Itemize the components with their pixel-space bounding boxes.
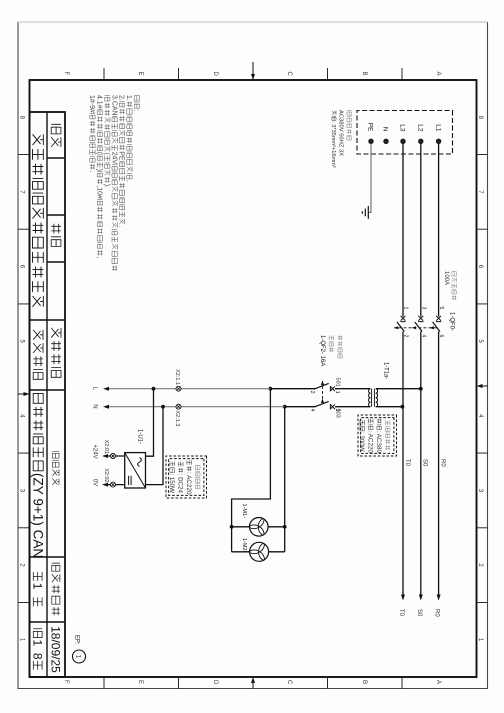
svg-text:L3: L3 (399, 124, 406, 132)
wire N to power supply input (146, 407, 164, 485)
label QF0 description (452, 272, 456, 276)
svg-text:N: N (92, 404, 98, 408)
svg-text:5: 5 (19, 340, 25, 344)
svg-text:6: 6 (477, 265, 483, 269)
wire 0V output (107, 484, 125, 486)
junction L to power supply (152, 387, 156, 391)
svg-text:1: 1 (334, 391, 340, 394)
svg-text:501: 501 (335, 378, 341, 387)
wire L1 from terminal to breaker (438, 144, 440, 317)
svg-text:1-QF2- 16A: 1-QF2- 16A (319, 335, 325, 366)
junction N to power supply (161, 405, 165, 409)
wire N rail breaker to fan tap (285, 406, 315, 408)
svg-text:R0: R0 (440, 459, 446, 467)
junction fan1 top (283, 525, 287, 529)
wire +24V output (107, 455, 125, 457)
svg-text:1: 1 (477, 638, 483, 642)
svg-text:4: 4 (309, 409, 315, 412)
wire fan1 bottom lead (232, 526, 250, 528)
svg-text:2: 2 (19, 563, 25, 567)
svg-text:: 3*35mm²+16mm²: : 3*35mm²+16mm² (330, 121, 336, 168)
terminal X2:01 (111, 454, 116, 459)
svg-text:1-QF0-: 1-QF0- (449, 312, 455, 331)
svg-text:1: 1 (75, 655, 81, 659)
wire L3 from terminal to breaker (402, 144, 404, 317)
svg-text:24V: 24V (110, 152, 117, 165)
wire R0 from breaker to feeder arrow (438, 332, 440, 596)
arrow N out (103, 405, 109, 409)
breaker QF0 pole L2 contact (418, 316, 423, 321)
svg-text:0V: 0V (92, 479, 98, 486)
svg-text:4: 4 (19, 414, 25, 418)
breaker QF0 pole L1 contact (436, 316, 441, 321)
wire L2 from terminal to breaker (420, 144, 422, 317)
svg-text:6: 6 (19, 265, 25, 269)
svg-text:: 150W: : 150W (168, 473, 175, 493)
svg-text:L1: L1 (434, 124, 441, 132)
svg-text:L: L (92, 387, 98, 391)
svg-text:1: 1 (31, 583, 45, 590)
fan M2 (250, 542, 269, 561)
fan M1 (250, 518, 269, 537)
svg-text:X2:02: X2:02 (103, 468, 109, 482)
svg-text:5: 5 (438, 307, 444, 310)
svg-text:4: 4 (420, 335, 426, 338)
svg-text:1-U1-: 1-U1- (137, 429, 143, 444)
wire 503 tap from T0 to transformer (376, 406, 403, 408)
svg-text:D: D (212, 72, 218, 77)
svg-text:18: 18 (31, 640, 45, 660)
junction on S0 (419, 387, 423, 391)
wire fan1 top lead (268, 526, 285, 528)
svg-text:4.1#: 4.1# (96, 95, 103, 109)
svg-text:A: A (435, 680, 441, 684)
transformer T1a (376, 389, 378, 407)
wire 501 transformer to breaker QF2 (335, 388, 370, 390)
svg-text:: AC220: : AC220 (185, 472, 192, 495)
svg-text:: AC220: : AC220 (367, 431, 374, 454)
svg-text:D: D (212, 680, 218, 685)
svg-text:1#-9#: 1#-9# (88, 95, 95, 113)
svg-text:2: 2 (477, 563, 483, 567)
svg-text:B: B (361, 72, 367, 76)
incoming supply terminal box (357, 111, 453, 155)
svg-text:6: 6 (438, 335, 444, 338)
svg-text:.: . (118, 225, 125, 227)
svg-text:3: 3 (420, 307, 426, 310)
svg-text:7: 7 (477, 190, 483, 194)
label QF2 description (338, 336, 342, 340)
power supply spec box (166, 456, 207, 498)
svg-text:).: ). (103, 184, 110, 188)
ground (362, 206, 368, 219)
arrow L out (103, 387, 109, 391)
wire S0 from breaker to feeder arrow (420, 332, 422, 596)
svg-text:A: A (435, 72, 441, 76)
wire L branch to fans (232, 389, 271, 552)
breaker QF2 linkage (322, 381, 324, 401)
wire 503 transformer to breaker QF2 (335, 406, 370, 408)
svg-text:F: F (63, 72, 69, 76)
svg-text:1-T1a-: 1-T1a- (383, 362, 389, 379)
svg-text:1.: 1. (125, 95, 132, 101)
svg-text:+24V: +24V (92, 444, 98, 458)
svg-text:C: C (286, 72, 292, 77)
svg-text:PE: PE (367, 123, 374, 132)
wire T0 from breaker to feeder arrow (402, 332, 404, 596)
transformer spec box (358, 415, 397, 456)
svg-text:8: 8 (477, 116, 483, 120)
svg-text:4: 4 (477, 414, 483, 418)
svg-text:: AC380: : AC380 (375, 431, 382, 454)
wire N rail grey lower (108, 406, 285, 408)
svg-text:): ) (96, 169, 103, 171)
wire fan2 bottom lead (232, 551, 250, 553)
svg-text:8: 8 (19, 116, 25, 120)
junction L fan tap (269, 387, 273, 391)
svg-text:3: 3 (477, 489, 483, 493)
svg-text:E: E (137, 680, 143, 684)
junction N fan tap (283, 405, 287, 409)
svg-text:18/09/25: 18/09/25 (49, 626, 63, 673)
svg-text:1: 1 (19, 638, 25, 642)
wire L to power supply input (146, 389, 154, 457)
svg-text:2.: 2. (118, 95, 125, 101)
terminal L2 (419, 139, 424, 144)
svg-text:.: . (88, 171, 95, 173)
svg-text:X2:1.3: X2:1.3 (174, 411, 180, 427)
svg-text:1-M1-: 1-M1- (241, 504, 247, 519)
svg-text:1-M2-: 1-M2- (241, 538, 247, 553)
supply description text (347, 111, 352, 116)
transformer core (373, 389, 375, 407)
svg-text:T0: T0 (398, 609, 404, 617)
svg-text:3.CAN: 3.CAN (110, 95, 117, 116)
svg-text:(: ( (96, 152, 103, 155)
terminal X2:1.1 (176, 386, 181, 391)
terminal X2:02 (111, 482, 116, 487)
breaker QF0 linkage (394, 327, 437, 329)
transformer secondary coil (369, 389, 371, 407)
svg-text:X2:01: X2:01 (103, 440, 109, 454)
svg-text:: DC24: : DC24 (177, 474, 184, 494)
wire 501 tap from S0 to transformer (376, 388, 421, 390)
svg-text:(ZY 9+1) CAN: (ZY 9+1) CAN (31, 473, 46, 558)
svg-text:S0: S0 (422, 459, 428, 467)
svg-text:.: . (125, 180, 132, 182)
svg-text:B: B (361, 680, 367, 684)
junction fan1 bottom (230, 525, 234, 529)
arrow 0V (102, 483, 108, 487)
svg-text:T0: T0 (404, 459, 410, 467)
wire L rail breaker to fan tap (270, 388, 315, 390)
svg-text:C: C (286, 680, 292, 685)
svg-text:S0: S0 (416, 609, 422, 617)
junction on T0 (401, 405, 405, 409)
svg-text:L2: L2 (417, 124, 424, 132)
svg-text:,: , (96, 257, 103, 259)
svg-text:N: N (382, 127, 389, 132)
power supply U1 (125, 453, 146, 488)
wire N branch to fans (284, 407, 286, 552)
svg-text:5: 5 (477, 340, 483, 344)
arrow +24V (102, 454, 108, 458)
svg-text:,10#: ,10# (96, 185, 103, 199)
terminal N (384, 139, 389, 144)
svg-text::: : (133, 109, 140, 111)
svg-text:3: 3 (334, 409, 340, 412)
svg-text:R0: R0 (434, 609, 440, 617)
svg-text:3: 3 (19, 489, 25, 493)
breaker QF0 pole L3 contact (401, 316, 406, 321)
svg-text:100A: 100A (443, 271, 449, 285)
terminal X2:1.3 (176, 404, 181, 409)
svg-text:F: F (63, 680, 69, 684)
terminal L3 (401, 139, 406, 144)
svg-text:7: 7 (19, 190, 25, 194)
svg-text:2: 2 (403, 335, 409, 338)
svg-text:(: ( (103, 153, 110, 156)
terminal L1 (436, 139, 441, 144)
svg-text:2: 2 (309, 391, 315, 394)
svg-text:X2:1.1: X2:1.1 (174, 369, 180, 385)
breaker QF2 pole at x=388.7 (330, 386, 335, 391)
svg-text:EP:: EP: (74, 635, 80, 645)
wire fan2 top lead (269, 551, 285, 553)
wire PE (369, 144, 372, 213)
svg-text:PE: PE (118, 151, 125, 161)
svg-text:AC380V 50HZ 3X: AC380V 50HZ 3X (338, 110, 344, 156)
svg-text:1: 1 (403, 307, 409, 310)
svg-text:E: E (137, 72, 143, 76)
svg-text:: 300W: : 300W (358, 432, 365, 452)
breaker QF2 pole at x=406.7 (330, 404, 335, 409)
terminal PE (369, 139, 374, 144)
wire L rail grey lower (108, 388, 271, 390)
